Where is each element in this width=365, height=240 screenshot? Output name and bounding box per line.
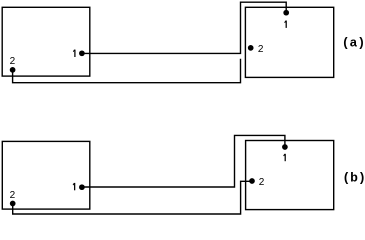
svg-text:(b): (b) <box>342 171 365 186</box>
svg-text:2: 2 <box>10 56 16 67</box>
svg-text:2: 2 <box>258 44 264 55</box>
svg-text:(a): (a) <box>342 36 365 51</box>
svg-text:2: 2 <box>259 177 265 188</box>
svg-text:2: 2 <box>10 190 16 201</box>
